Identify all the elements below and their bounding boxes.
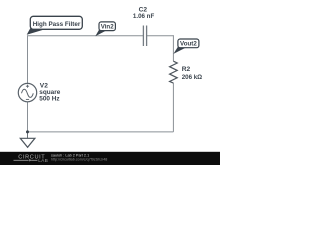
capacitor C2 plates [143,26,146,47]
wire left vertical lower (V2 bottom to junction) [27,102,29,132]
footer bar [0,152,220,165]
label flag High Pass Filter box [30,16,82,29]
label flag High Pass Filter tail [27,26,45,35]
svg-text:High Pass Filter: High Pass Filter [33,21,81,28]
voltage source V2 circle [18,83,36,101]
junction node at bottom-left [26,130,29,133]
ground symbol [20,138,35,147]
wire bottom [28,131,174,133]
wire top from C2 right to top-right corner [147,35,174,37]
svg-text:206 kΩ: 206 kΩ [182,74,202,81]
svg-text:Vin2: Vin2 [101,24,115,31]
svg-text:Vout2: Vout2 [180,41,197,48]
wire right vertical upper (corner to R2 top) [172,35,174,61]
footer CircuitLab logo word LAB with lines [14,159,38,161]
voltage source V2 minus sign [26,98,29,100]
label flag Vin2 tail [95,29,107,37]
voltage source V2 plus sign [26,85,29,88]
wire ground stub [27,132,29,138]
svg-text:R2: R2 [182,66,191,73]
resistor R2 zigzag [170,61,178,83]
svg-text:1.06 nF: 1.06 nF [133,13,155,20]
wire right vertical lower (R2 bottom to bottom wire) [172,83,174,132]
svg-text:http://circuitlab.com/c/q7f9zS: http://circuitlab.com/c/q7f9zShzr48 [51,157,107,161]
label flag Vout2 box [178,39,199,48]
wire top from node A to C2 left [28,35,144,37]
voltage source V2 sine wave [22,89,34,97]
svg-text:500 Hz: 500 Hz [39,96,59,103]
label flag Vin2 box [99,22,115,31]
wire left vertical upper (corner to V2 top) [27,35,29,83]
label flag Vout2 tail [173,46,186,54]
svg-text:LAB: LAB [38,158,48,164]
